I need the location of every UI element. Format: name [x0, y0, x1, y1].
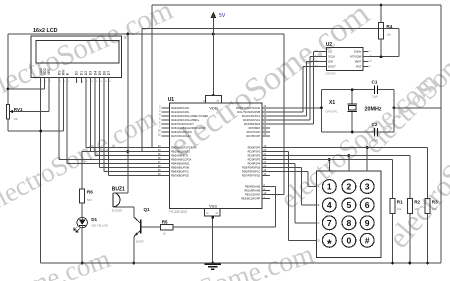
- svg-text:22pF: 22pF: [372, 138, 378, 142]
- svg-text:BUZZER: BUZZER: [112, 208, 123, 212]
- svg-text:RB4/KBI0/AN11: RB4/KBI0/AN11: [171, 162, 190, 166]
- svg-text:D6: D6: [102, 71, 106, 75]
- svg-text:*: *: [327, 237, 332, 251]
- svg-text:SCLK: SCLK: [328, 55, 335, 59]
- svg-text:20MHz: 20MHz: [365, 106, 382, 112]
- svg-text:16x2 LCD: 16x2 LCD: [33, 28, 58, 34]
- svg-text:14: 14: [158, 129, 161, 132]
- svg-text:RC1/T1OSI/CCP2B: RC1/T1OSI/CCP2B: [237, 110, 260, 114]
- svg-text:D: D: [318, 239, 320, 242]
- svg-text:Q1: Q1: [144, 207, 151, 212]
- svg-text:10k: 10k: [13, 117, 18, 121]
- svg-text:RA4/T0CKI/C1OUT: RA4/T0CKI/C1OUT: [171, 122, 194, 126]
- svg-text:RC4/SDI/SDA: RC4/SDI/SDA: [244, 122, 261, 126]
- svg-text:RV1: RV1: [14, 107, 23, 112]
- svg-text:VBAT: VBAT: [355, 60, 362, 64]
- svg-text:5: 5: [64, 81, 65, 83]
- svg-text:DS3234: DS3234: [326, 71, 337, 75]
- svg-text:6: 6: [68, 81, 69, 83]
- svg-text:PIC18F4520: PIC18F4520: [169, 210, 187, 214]
- svg-text:10k: 10k: [432, 207, 437, 211]
- svg-text:RD4/PSP4: RD4/PSP4: [248, 162, 261, 166]
- svg-text:RC0/T1OSO/T13CKI: RC0/T1OSO/T13CKI: [236, 106, 260, 110]
- svg-text:RE2/CS/AN7: RE2/CS/AN7: [245, 193, 261, 197]
- svg-text:RD7/PSP7/P1D: RD7/PSP7/P1D: [242, 174, 260, 178]
- svg-text:VSS: VSS: [209, 203, 217, 208]
- svg-text:RB3/AN9/CCP2A: RB3/AN9/CCP2A: [171, 158, 191, 162]
- svg-text:10: 10: [91, 81, 93, 83]
- svg-text:D7: D7: [107, 71, 111, 75]
- svg-text:R1: R1: [397, 200, 403, 205]
- svg-text:U2: U2: [326, 42, 333, 48]
- svg-text:electroSome.com: electroSome.com: [123, 239, 318, 281]
- svg-text:BUZ1: BUZ1: [112, 187, 125, 193]
- svg-text:7: 7: [77, 81, 78, 83]
- svg-text:9: 9: [365, 218, 370, 228]
- svg-text:R4: R4: [386, 24, 392, 29]
- svg-text:RD1/PSP1: RD1/PSP1: [248, 150, 261, 154]
- svg-text:RB2/AN8/INT2: RB2/AN8/INT2: [171, 154, 189, 158]
- svg-text:7: 7: [159, 125, 161, 128]
- svg-text:RD3/PSP3: RD3/PSP3: [248, 158, 261, 162]
- svg-text:1k: 1k: [163, 232, 167, 236]
- svg-text:32kHz: 32kHz: [354, 50, 362, 54]
- svg-text:C2: C2: [372, 122, 378, 127]
- svg-text:BC547: BC547: [136, 240, 144, 244]
- svg-text:D1: D1: [80, 71, 84, 75]
- svg-text:RC6/TX/CK: RC6/TX/CK: [247, 130, 261, 134]
- svg-text:electroSome.com: electroSome.com: [0, 243, 114, 281]
- svg-text:CRYSTAL: CRYSTAL: [326, 109, 339, 113]
- svg-text:1: 1: [41, 81, 42, 83]
- svg-text:RD5/PSP5/P1B: RD5/PSP5/P1B: [242, 166, 260, 170]
- svg-text:560: 560: [87, 198, 92, 202]
- svg-text:VDD: VDD: [209, 105, 218, 110]
- svg-text:13: 13: [105, 81, 107, 83]
- svg-text:RB6/KBI2/PGC: RB6/KBI2/PGC: [171, 170, 189, 174]
- svg-text:10k: 10k: [397, 207, 402, 211]
- svg-text:10k: 10k: [386, 33, 391, 37]
- svg-text:RE1/WR/AN6: RE1/WR/AN6: [244, 189, 260, 193]
- svg-text:DOUT: DOUT: [328, 65, 336, 69]
- svg-text:X1: X1: [329, 100, 335, 106]
- svg-text:5V: 5V: [219, 13, 226, 19]
- svg-text:7: 7: [327, 218, 332, 228]
- svg-text:9: 9: [86, 81, 87, 83]
- svg-text:B: B: [318, 204, 320, 207]
- svg-text:2: 2: [347, 182, 352, 192]
- svg-text:RA7/OSC1/CLKI: RA7/OSC1/CLKI: [171, 134, 191, 138]
- svg-text:RD2/PSP2: RD2/PSP2: [248, 154, 261, 158]
- svg-text:RA1/AN1/C2IN-: RA1/AN1/C2IN-: [171, 110, 189, 114]
- svg-text:RA2/AN2/C2IN+/VREF-/CVREF: RA2/AN2/C2IN+/VREF-/CVREF: [171, 114, 208, 118]
- svg-text:RC2/CCP1/P1A: RC2/CCP1/P1A: [242, 114, 261, 118]
- svg-text:4: 4: [370, 65, 372, 67]
- svg-text:electroSome.com: electroSome.com: [0, 0, 178, 105]
- svg-text:12: 12: [100, 81, 102, 83]
- svg-text:11: 11: [96, 81, 98, 83]
- svg-text:RA5/AN4/SS/HLVDIN/C2OUT: RA5/AN4/SS/HLVDIN/C2OUT: [171, 126, 206, 130]
- svg-text:D2: D2: [84, 71, 88, 75]
- svg-text:CS: CS: [328, 50, 332, 54]
- svg-text:C1: C1: [372, 79, 378, 84]
- svg-text:2: 2: [159, 105, 161, 108]
- svg-text:2: 2: [45, 81, 46, 83]
- svg-text:8: 8: [82, 81, 83, 83]
- svg-text:2: 2: [348, 179, 351, 181]
- svg-text:INT/SQW: INT/SQW: [350, 55, 362, 59]
- svg-text:RB1/AN10/INT1: RB1/AN10/INT1: [171, 150, 190, 154]
- svg-text:4: 4: [159, 113, 161, 116]
- svg-text:13: 13: [158, 133, 161, 136]
- svg-text:RB7/KBI3/PGD: RB7/KBI3/PGD: [171, 174, 189, 178]
- svg-text:RS: RS: [57, 70, 61, 75]
- svg-text:5: 5: [159, 117, 161, 120]
- svg-text:R5: R5: [162, 219, 168, 224]
- svg-text:RB5/KBI1/PGM: RB5/KBI1/PGM: [171, 166, 189, 170]
- svg-text:R2: R2: [414, 200, 420, 205]
- svg-text:D0: D0: [75, 71, 79, 75]
- svg-text:LED-YELLOW: LED-YELLOW: [91, 224, 108, 228]
- svg-text:14: 14: [109, 81, 111, 83]
- svg-text:RC5/SDO: RC5/SDO: [249, 126, 261, 130]
- svg-text:3: 3: [365, 182, 370, 192]
- svg-text:3: 3: [159, 109, 161, 112]
- svg-text:D3: D3: [89, 71, 93, 75]
- svg-text:VEE: VEE: [47, 68, 51, 76]
- svg-text:D1: D1: [91, 217, 97, 222]
- svg-text:1: 1: [327, 182, 332, 192]
- svg-text:0: 0: [347, 235, 352, 245]
- svg-text:4: 4: [60, 81, 61, 83]
- svg-text:RA6/OSC2/CLKO: RA6/OSC2/CLKO: [171, 130, 192, 134]
- svg-text:RB0/AN12/FLT0/INT0: RB0/AN12/FLT0/INT0: [171, 146, 197, 150]
- svg-text:20: 20: [370, 60, 373, 62]
- svg-text:4: 4: [327, 200, 332, 210]
- svg-text:RD6/PSP6/P1C: RD6/PSP6/P1C: [242, 170, 260, 174]
- svg-text:D5: D5: [98, 71, 102, 75]
- svg-text:8: 8: [347, 218, 352, 228]
- svg-text:D4: D4: [93, 71, 97, 75]
- svg-text:5: 5: [347, 200, 352, 210]
- svg-text:R6: R6: [87, 190, 93, 195]
- svg-text:DIN: DIN: [328, 60, 333, 64]
- svg-text:RA3/AN3/C1IN+/VREF+: RA3/AN3/C1IN+/VREF+: [171, 118, 200, 122]
- svg-text:#: #: [365, 235, 370, 245]
- svg-text:RC7/RX/DT: RC7/RX/DT: [246, 134, 260, 138]
- svg-text:RE0/RD/AN5: RE0/RD/AN5: [245, 185, 261, 189]
- svg-text:6: 6: [159, 121, 161, 124]
- svg-text:RST: RST: [356, 65, 362, 69]
- svg-text:22pF: 22pF: [372, 95, 378, 99]
- svg-text:1: 1: [370, 50, 372, 52]
- svg-text:RD0/PSP0: RD0/PSP0: [248, 146, 261, 150]
- svg-text:R3: R3: [432, 200, 438, 205]
- svg-text:3: 3: [50, 81, 51, 83]
- svg-text:RC3/SCK/SCL: RC3/SCK/SCL: [243, 118, 261, 122]
- svg-text:6: 6: [365, 200, 370, 210]
- svg-text:RE3/MCLR/VPP: RE3/MCLR/VPP: [241, 197, 260, 201]
- svg-text:10k: 10k: [414, 207, 419, 211]
- svg-text:3: 3: [366, 179, 369, 181]
- svg-text:RA0/AN0/C1IN-: RA0/AN0/C1IN-: [171, 106, 189, 110]
- svg-text:C: C: [318, 222, 320, 225]
- svg-text:U1: U1: [168, 97, 175, 103]
